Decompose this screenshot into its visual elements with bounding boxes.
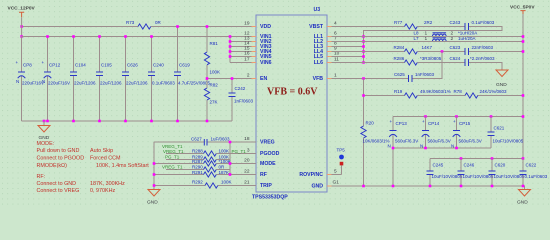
resistor R19 bbox=[394, 89, 451, 98]
svg-text:R19: R19 bbox=[394, 89, 403, 94]
wire R284 row y=51.5 bbox=[332, 51, 524, 53]
wire TRIP net y=185.5 bbox=[154, 185, 256, 187]
wire R286 row y=62.5 bbox=[332, 63, 503, 71]
pin PGOOD 3 bbox=[247, 148, 280, 158]
svg-text:VFB = 0.6V: VFB = 0.6V bbox=[267, 87, 318, 98]
junction VDD/power bbox=[20, 25, 23, 28]
svg-text:18: 18 bbox=[244, 136, 250, 142]
capacitor C619 bbox=[174, 27, 211, 122]
resistor R289 bbox=[165, 154, 229, 162]
svg-text:1nF/0603: 1nF/0603 bbox=[234, 99, 254, 104]
svg-text:21: 21 bbox=[244, 180, 250, 186]
svg-text:R82: R82 bbox=[210, 83, 219, 88]
wire EN net y=78.5 bbox=[207, 78, 256, 80]
svg-text:R288: R288 bbox=[192, 148, 203, 153]
svg-text:C245: C245 bbox=[433, 163, 444, 168]
capacitor C623 bbox=[450, 45, 494, 55]
svg-text:C626: C626 bbox=[127, 63, 138, 68]
resistor R82 bbox=[204, 79, 218, 122]
ground symbol bottom right bbox=[517, 190, 531, 206]
junction R19 row bbox=[362, 94, 524, 97]
svg-text:R20: R20 bbox=[366, 121, 375, 126]
svg-text:CP13: CP13 bbox=[396, 121, 408, 126]
pin RF 22 bbox=[244, 169, 267, 179]
svg-text:16: 16 bbox=[244, 51, 250, 57]
power symbol VCC_12P0V bbox=[8, 6, 36, 18]
wire MODE net y=163.5 bbox=[154, 163, 256, 165]
svg-text:22uF/1206: 22uF/1206 bbox=[100, 81, 122, 86]
svg-text:L8: L8 bbox=[414, 31, 420, 36]
capacitor C620 bbox=[489, 159, 525, 187]
resistor R20 bbox=[361, 121, 390, 144]
wire GND rail left y=121 bbox=[22, 120, 233, 122]
junction GND mid rail bbox=[392, 147, 458, 150]
svg-text:0R: 0R bbox=[155, 20, 162, 25]
capacitor C627 bbox=[191, 137, 230, 146]
svg-text:4: 4 bbox=[334, 21, 337, 27]
wire VCC_5P0V rail x=523 bbox=[522, 14, 524, 159]
svg-text:C622: C622 bbox=[526, 163, 537, 168]
wire R289 stub bbox=[166, 159, 230, 161]
pin VIN1 12 bbox=[244, 31, 271, 41]
svg-text:VFB: VFB bbox=[313, 76, 324, 82]
wire VIN fan bus x=230 bbox=[230, 37, 256, 63]
pin LL3 8 bbox=[314, 41, 337, 51]
capacitor CP8 bbox=[16, 37, 45, 122]
svg-text:1uF/0603: 1uF/0603 bbox=[211, 137, 231, 142]
svg-text:1: 1 bbox=[425, 36, 428, 42]
svg-text:EN: EN bbox=[260, 76, 267, 82]
wire VOUT row2 rail y=158.5 bbox=[430, 158, 523, 160]
svg-text:2: 2 bbox=[451, 36, 454, 42]
capacitor C625 bbox=[394, 72, 435, 82]
svg-text:C625: C625 bbox=[394, 72, 405, 77]
wire GND left block rail x=154 bbox=[153, 142, 155, 190]
svg-text:C621: C621 bbox=[494, 126, 505, 131]
svg-text:CP14: CP14 bbox=[428, 121, 440, 126]
wire L7 row y=41.5 bbox=[332, 41, 524, 43]
capacitor C242 bbox=[229, 79, 254, 122]
junction VFB branch bbox=[362, 77, 365, 80]
svg-text:C243: C243 bbox=[450, 20, 461, 25]
svg-text:RMODE(kΩ): RMODE(kΩ) bbox=[37, 163, 68, 169]
wire VDD net y=26.5 bbox=[22, 26, 256, 28]
svg-text:PG_T1: PG_T1 bbox=[165, 154, 180, 159]
pin LL5 10 bbox=[314, 51, 340, 61]
ground symbol snubber bbox=[496, 70, 508, 88]
wire GND bottom rail y=186 bbox=[332, 186, 525, 190]
resistor R284 bbox=[394, 45, 433, 54]
svg-text:1: 1 bbox=[425, 31, 428, 37]
pin VBST 4 bbox=[309, 21, 337, 31]
svg-text:R81: R81 bbox=[210, 41, 219, 46]
capacitor C626 bbox=[122, 37, 148, 122]
svg-text:14K7: 14K7 bbox=[422, 45, 433, 50]
capacitor C243 bbox=[450, 20, 495, 30]
svg-text:R78: R78 bbox=[454, 89, 463, 94]
svg-text:C620: C620 bbox=[495, 163, 506, 168]
svg-text:R286: R286 bbox=[394, 56, 405, 61]
wire VOUT top rail y=116.5 bbox=[393, 116, 523, 118]
svg-text:R73: R73 bbox=[126, 20, 135, 25]
pin LL2 7 bbox=[314, 36, 337, 46]
capacitor CP13 bbox=[388, 117, 419, 187]
svg-text:CP8: CP8 bbox=[23, 63, 32, 68]
capacitor CP12 bbox=[42, 37, 71, 122]
wire power drop to VIN bbox=[21, 17, 23, 36]
junction L8/L7 at VCC rail bbox=[522, 35, 525, 43]
svg-text:L7: L7 bbox=[414, 36, 420, 41]
svg-text:22uF/1206: 22uF/1206 bbox=[74, 81, 96, 86]
svg-text:N: N bbox=[42, 79, 45, 84]
wire ROVP/NC y=174.5 bbox=[332, 174, 342, 176]
svg-text:*2.2nF/0603: *2.2nF/0603 bbox=[470, 56, 495, 61]
svg-text:20: 20 bbox=[244, 158, 250, 164]
svg-text:VCC_5P0V: VCC_5P0V bbox=[510, 5, 535, 11]
svg-text:R287: R287 bbox=[192, 159, 203, 164]
wire LL pin rows to bus bbox=[332, 42, 364, 57]
svg-text:Connect to PGOOD: Connect to PGOOD bbox=[37, 156, 85, 162]
svg-text:PG_T1: PG_T1 bbox=[232, 149, 247, 154]
pin TRIP 21 bbox=[244, 180, 272, 190]
pin MODE 20 bbox=[244, 158, 276, 168]
resistor R81 bbox=[204, 27, 220, 79]
svg-text:187K, 300KHz: 187K, 300KHz bbox=[90, 181, 125, 187]
junction VOUT row2 rail bbox=[460, 157, 525, 160]
svg-text:U3: U3 bbox=[314, 7, 321, 13]
svg-text:24K/1%/0603: 24K/1%/0603 bbox=[480, 89, 508, 94]
pin VIN5 16 bbox=[244, 51, 271, 61]
svg-text:22: 22 bbox=[244, 169, 250, 175]
resistor R286 bbox=[394, 56, 442, 65]
svg-text:ROVP/NC: ROVP/NC bbox=[299, 172, 323, 178]
svg-text:49.9K/0603/1%: 49.9K/0603/1% bbox=[420, 89, 451, 94]
pin VIN4 15 bbox=[244, 46, 271, 56]
svg-text:10K/0603/1%: 10K/0603/1% bbox=[363, 139, 390, 144]
ground symbol left block bbox=[147, 190, 160, 206]
pin VFB 1 bbox=[313, 73, 337, 83]
svg-text:VDD: VDD bbox=[260, 24, 271, 30]
test point TP5 bbox=[337, 148, 346, 175]
svg-text:CP15: CP15 bbox=[459, 121, 471, 126]
pin LL6 11 bbox=[314, 57, 340, 67]
svg-text:1uH/20A: 1uH/20A bbox=[458, 36, 476, 41]
svg-text:VIN6: VIN6 bbox=[260, 60, 272, 66]
op-amp U1 : IC U3 TPS53353DQP body bbox=[252, 7, 327, 201]
svg-text:560uF/6.3V: 560uF/6.3V bbox=[428, 139, 451, 144]
resistor R78 bbox=[454, 89, 508, 98]
svg-text:Pull down to GND: Pull down to GND bbox=[37, 148, 80, 154]
svg-text:19: 19 bbox=[244, 21, 250, 27]
capacitor C104 bbox=[70, 37, 96, 122]
svg-text:100K: 100K bbox=[210, 70, 221, 75]
svg-text:1: 1 bbox=[334, 73, 337, 79]
junction GND rail left bbox=[43, 120, 209, 123]
junction VIN fan bbox=[229, 35, 232, 58]
capacitor C105 bbox=[96, 37, 122, 122]
pin LL1 6 bbox=[314, 31, 337, 41]
pin ROVP/NC 5 bbox=[299, 169, 337, 179]
junction R284/C623/C625 bbox=[441, 50, 525, 53]
svg-text:VBST: VBST bbox=[309, 24, 324, 30]
resistor R73 0R bbox=[126, 20, 162, 29]
junction VIN wire at CP8 bbox=[20, 35, 23, 38]
svg-text:R291: R291 bbox=[192, 170, 203, 175]
svg-text:G1: G1 bbox=[333, 180, 340, 186]
junction GND bottom rail bbox=[362, 185, 524, 188]
svg-text:2: 2 bbox=[451, 31, 454, 37]
junction EN wire bbox=[206, 77, 234, 80]
junction C619/VDD bbox=[176, 25, 179, 28]
pin EN 2 bbox=[247, 73, 268, 83]
svg-text:PGOOD: PGOOD bbox=[260, 151, 280, 157]
svg-text:R77: R77 bbox=[394, 20, 403, 25]
svg-text:22uF/1206: 22uF/1206 bbox=[126, 81, 148, 86]
resistor R287 bbox=[192, 159, 231, 166]
svg-text:220uF/16V: 220uF/16V bbox=[48, 81, 70, 86]
svg-text:+: + bbox=[422, 119, 425, 124]
power symbol VCC_5P0V bbox=[510, 5, 535, 14]
svg-text:Auto Skip: Auto Skip bbox=[90, 148, 113, 154]
svg-text:TP5: TP5 bbox=[337, 148, 346, 153]
svg-text:22nF/0603: 22nF/0603 bbox=[472, 45, 494, 50]
wire VFB divider vertical x=363.5 bbox=[363, 79, 365, 187]
svg-text:100K: 100K bbox=[219, 148, 230, 153]
pin VIN3 14 bbox=[244, 41, 271, 51]
svg-text:2: 2 bbox=[247, 73, 250, 79]
capacitor CP14 bbox=[420, 117, 451, 149]
svg-text:N: N bbox=[16, 79, 19, 84]
svg-text:0.1uF/0603: 0.1uF/0603 bbox=[152, 81, 175, 86]
inductor L8 bbox=[414, 31, 478, 37]
svg-text:MODE: MODE bbox=[260, 161, 276, 167]
svg-text:C624: C624 bbox=[450, 56, 461, 61]
wire GND mid rail y=148 bbox=[393, 147, 491, 149]
svg-text:10uF/10V/0805: 10uF/10V/0805 bbox=[493, 139, 524, 144]
svg-text:+: + bbox=[453, 119, 456, 124]
svg-text:11: 11 bbox=[334, 57, 339, 63]
resistor R288 bbox=[163, 148, 246, 156]
svg-text:*3R3/0805: *3R3/0805 bbox=[420, 56, 442, 61]
junction caps on VIN wire bbox=[46, 35, 153, 38]
svg-text:4.7uF/25V/0805: 4.7uF/25V/0805 bbox=[178, 81, 211, 86]
junction R81/VDD bbox=[206, 25, 209, 28]
pin VIN6 17 bbox=[244, 57, 271, 67]
svg-text:0.1uF/0603: 0.1uF/0603 bbox=[525, 174, 548, 179]
svg-text:C240: C240 bbox=[153, 63, 164, 68]
svg-text:TRIP: TRIP bbox=[260, 183, 272, 189]
capacitor C246 bbox=[458, 159, 494, 187]
svg-text:560uF/6.3V: 560uF/6.3V bbox=[459, 139, 482, 144]
svg-text:VREG_T1: VREG_T1 bbox=[163, 149, 184, 154]
junction MODE wire bbox=[153, 162, 232, 165]
wire VFB/C625 row y=78.5 bbox=[332, 52, 443, 79]
svg-text:0R: 0R bbox=[219, 165, 226, 170]
svg-text:GND: GND bbox=[147, 200, 158, 206]
capacitor C622 bbox=[520, 159, 548, 187]
resistor R77 bbox=[394, 20, 433, 29]
svg-text:1nF/0603: 1nF/0603 bbox=[415, 72, 435, 77]
svg-text:GND: GND bbox=[496, 82, 507, 88]
capacitor CP15 bbox=[451, 117, 482, 149]
note MODE red text bbox=[37, 141, 150, 169]
svg-text:C242: C242 bbox=[235, 86, 246, 91]
pin LL4 9 bbox=[314, 46, 337, 56]
junction VREG option bus bbox=[229, 141, 232, 144]
wire L8 row y=36.5 bbox=[332, 36, 524, 38]
svg-text:220uF/16V: 220uF/16V bbox=[22, 81, 44, 86]
svg-text:R284: R284 bbox=[394, 45, 405, 50]
junction LL bus bbox=[362, 35, 365, 64]
pin GND G1 bbox=[311, 180, 339, 190]
note RF red text bbox=[37, 174, 126, 194]
svg-text:MODE:: MODE: bbox=[37, 141, 55, 147]
svg-text:560uF/6.3V: 560uF/6.3V bbox=[395, 139, 418, 144]
svg-text:C623: C623 bbox=[450, 45, 461, 50]
svg-text:100K, 1.4ms SoftStart: 100K, 1.4ms SoftStart bbox=[96, 163, 149, 169]
svg-text:CP12: CP12 bbox=[49, 63, 61, 68]
capacitor C621 bbox=[488, 117, 524, 149]
svg-text:0, 970KHz: 0, 970KHz bbox=[90, 188, 115, 194]
svg-text:+: + bbox=[42, 60, 45, 65]
svg-text:C104: C104 bbox=[75, 63, 86, 68]
svg-text:17: 17 bbox=[244, 57, 250, 63]
wire VBST net y=26.5 bbox=[332, 27, 503, 63]
svg-text:C627: C627 bbox=[191, 137, 202, 142]
svg-text:100K: 100K bbox=[221, 180, 232, 185]
junction TRIP wire bbox=[153, 184, 156, 187]
wire PGOOD net y=153.5 bbox=[166, 153, 256, 155]
svg-text:Connect to GND: Connect to GND bbox=[37, 181, 77, 187]
capacitor C624 bbox=[450, 56, 496, 66]
svg-text:+: + bbox=[390, 119, 393, 124]
capacitor C240 bbox=[148, 37, 175, 122]
inductor L7 bbox=[414, 36, 476, 42]
svg-text:GND: GND bbox=[311, 184, 323, 190]
resistor R292 bbox=[192, 180, 232, 189]
svg-text:2R2: 2R2 bbox=[424, 20, 433, 25]
svg-text:C105: C105 bbox=[101, 63, 112, 68]
svg-text:5: 5 bbox=[334, 169, 337, 175]
svg-text:GND: GND bbox=[517, 200, 528, 206]
wire R19/R78 row y=95.5 bbox=[364, 95, 524, 97]
svg-text:+: + bbox=[16, 60, 19, 65]
svg-text:C246: C246 bbox=[464, 163, 475, 168]
svg-text:C619: C619 bbox=[179, 63, 190, 68]
svg-text:3: 3 bbox=[247, 148, 250, 154]
svg-text:RF: RF bbox=[260, 172, 267, 178]
wire VIN net y=36.5 bbox=[22, 36, 257, 38]
svg-text:Connect to VREG: Connect to VREG bbox=[37, 188, 80, 194]
svg-text:R292: R292 bbox=[192, 180, 203, 185]
resistor R291 bbox=[192, 170, 229, 177]
svg-text:*1uH/20A: *1uH/20A bbox=[458, 31, 477, 36]
pin VDD 19 bbox=[244, 21, 271, 31]
wire MODE/RF option bus x=230 bbox=[229, 142, 231, 175]
svg-text:VREG: VREG bbox=[260, 140, 275, 146]
ground symbol left bbox=[38, 121, 50, 141]
wire VREG net y=142 bbox=[154, 141, 256, 143]
svg-text:TPS53353DQP: TPS53353DQP bbox=[252, 195, 288, 201]
svg-text:LL6: LL6 bbox=[314, 60, 323, 66]
resistor R290 bbox=[162, 165, 225, 173]
svg-text:27K: 27K bbox=[210, 100, 218, 105]
wire RF net y=174.5 bbox=[154, 174, 256, 176]
junction VOUT top rail bbox=[424, 115, 524, 118]
svg-text:RF:: RF: bbox=[37, 174, 46, 180]
wire R290 stub bbox=[166, 169, 230, 171]
pin VREG 18 bbox=[244, 136, 275, 146]
junction RF wire bbox=[153, 173, 232, 176]
svg-text:VREG_T1: VREG_T1 bbox=[162, 165, 183, 170]
pin VIN2 13 bbox=[244, 36, 271, 46]
svg-text:VCC_12P0V: VCC_12P0V bbox=[8, 6, 36, 12]
svg-text:187K: 187K bbox=[219, 170, 230, 175]
svg-text:R290: R290 bbox=[192, 165, 203, 170]
svg-text:0.1uF/0603: 0.1uF/0603 bbox=[472, 20, 495, 25]
svg-text:N: N bbox=[388, 144, 391, 149]
svg-text:Forced CCM: Forced CCM bbox=[90, 156, 121, 162]
capacitor C245 bbox=[427, 159, 463, 187]
